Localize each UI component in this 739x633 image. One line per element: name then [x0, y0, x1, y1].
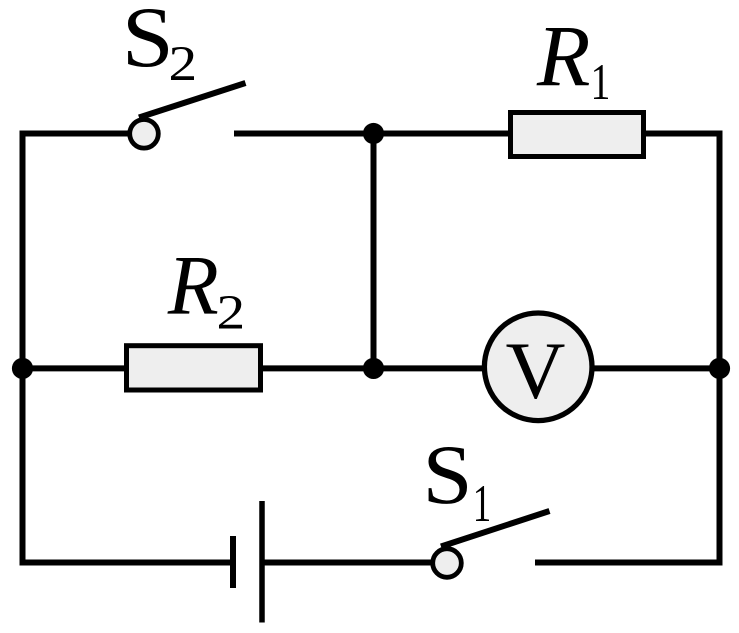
label R2 letter R — [167, 258, 217, 314]
node: center middle junction — [363, 358, 384, 379]
voltmeter letter V — [506, 345, 564, 399]
wire: bottom rail battery to S1 — [262, 560, 434, 566]
node: top junction — [363, 123, 384, 144]
wire: top rail from S2 to right corner — [234, 131, 723, 137]
node: right middle junction — [709, 358, 730, 379]
label S2 letter S — [128, 9, 168, 67]
label S2 subscript 2 — [171, 47, 194, 80]
node: left middle junction — [12, 358, 33, 379]
label R1 subscript 1 — [594, 65, 608, 99]
wire: top rail left segment to S2 — [20, 131, 132, 137]
label S1 letter S — [429, 447, 468, 504]
battery cell positive plate (long) — [259, 501, 265, 623]
switch S2 pivot circle — [130, 120, 159, 149]
resistor R2 — [127, 346, 261, 390]
voltmeter U1 circle — [484, 313, 592, 421]
label R2 subscript 2 — [219, 296, 242, 329]
switch S1 pivot circle — [433, 549, 462, 578]
label S1 subscript 1 — [476, 486, 489, 521]
label R1 letter R — [536, 28, 588, 85]
resistor R1 — [511, 113, 644, 157]
wire: bottom rail left segment to battery — [20, 560, 234, 566]
battery cell negative plate (short) — [230, 536, 236, 588]
wire: right rail — [717, 131, 723, 566]
switch S1 lever — [441, 511, 550, 547]
wire: center vertical branch — [371, 134, 377, 369]
wire: bottom rail from S1 to right corner — [535, 560, 723, 566]
wire: middle rail — [20, 365, 723, 371]
switch S2 lever — [139, 83, 246, 118]
wire: left rail — [20, 131, 26, 566]
